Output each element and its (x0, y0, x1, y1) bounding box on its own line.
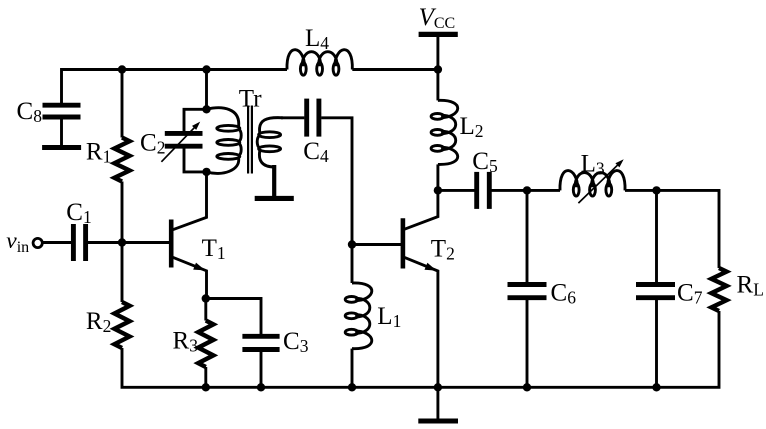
svg-text:R1: R1 (86, 139, 111, 167)
wire top rail to tank (205, 70, 208, 110)
svg-text:R3: R3 (173, 327, 199, 355)
label C2 (140, 130, 165, 158)
wire C3 bottom lead (260, 352, 263, 388)
capacitor C8 (43, 105, 81, 117)
wire L2 bottom lead (436, 164, 439, 190)
wire C5 to L3 (491, 189, 560, 192)
ground bar below Tr secondary (255, 196, 294, 201)
wire R2 bottom lead and rail corners (122, 311, 719, 387)
capacitor C1 (73, 224, 85, 261)
node T1 emitter junction (202, 294, 210, 302)
resistor R3 top lead (204, 299, 207, 321)
label R2 (86, 308, 111, 336)
node L1 bottom rail (348, 383, 356, 391)
label T2 (431, 236, 455, 264)
svg-text:C5: C5 (472, 148, 498, 176)
svg-text:VCC: VCC (419, 4, 456, 32)
svg-text:RL: RL (737, 272, 764, 300)
resistor R3 (198, 321, 213, 368)
wire v_in to C1 (42, 241, 71, 244)
inductor L3 (560, 171, 625, 197)
label R1 (86, 139, 111, 167)
wire Vcc stub (436, 35, 439, 70)
node C7 bottom rail (652, 383, 660, 391)
node L2 C5 junction (434, 186, 442, 194)
wire C7 top lead (655, 190, 658, 282)
resistor R2 (114, 302, 129, 348)
svg-text:Tr: Tr (239, 86, 262, 113)
resistor R1 (114, 138, 129, 182)
wire base node to T1 (122, 241, 169, 244)
node C3 bottom rail (257, 383, 265, 391)
node C6 junction (523, 186, 531, 194)
inductor L4 (287, 50, 352, 76)
ground bar (418, 419, 458, 424)
wire top rail right segment (L4 to Vcc node) (352, 68, 438, 71)
label C7 (677, 280, 703, 308)
svg-text:R2: R2 (86, 308, 111, 336)
svg-text:C1: C1 (66, 199, 91, 227)
svg-text:C2: C2 (140, 130, 165, 158)
wire ground stub (436, 387, 439, 420)
svg-text:L3: L3 (581, 150, 605, 178)
arrow C2 variable (161, 122, 200, 162)
transistor T1 base bar (169, 220, 174, 268)
wire R3 bottom lead (204, 367, 207, 387)
wire top rail left segment (C8 to L4) (62, 70, 288, 104)
capacitor C7 (636, 285, 675, 298)
wire R1 bottom to base node (121, 182, 124, 243)
wire C1 to base node (88, 241, 122, 244)
capacitor C3 (242, 336, 279, 349)
label L1 (377, 303, 401, 331)
svg-text:vin: vin (6, 228, 29, 256)
wire L1 bottom lead (351, 349, 354, 388)
inductor L1 (345, 283, 372, 349)
label L2 (460, 113, 484, 141)
svg-text:L2: L2 (460, 113, 484, 141)
label C8 (17, 98, 43, 126)
terminal v_in (33, 238, 42, 247)
node top rail / tank junction (202, 65, 210, 73)
label RL (737, 272, 764, 300)
wire Tr secondary to C4 (281, 116, 304, 119)
transformer Tr secondary winding (257, 118, 283, 167)
label C3 (283, 328, 309, 356)
transistor T1 collector (173, 172, 207, 230)
node tank top (202, 105, 210, 113)
label C1 (66, 199, 91, 227)
capacitor C5 (477, 172, 490, 209)
label Vcc (419, 4, 456, 32)
wire base node to R2 (121, 243, 124, 303)
label C6 (551, 280, 577, 308)
label L4 (305, 25, 329, 53)
wire C2 top connection (184, 109, 207, 131)
wire R1 top lead (121, 70, 124, 138)
capacitor C6 (508, 285, 547, 298)
transformer Tr core (248, 106, 252, 174)
label L3 (581, 150, 605, 178)
wire L3 to RL corner (625, 190, 719, 268)
transistor T2 emitter (404, 257, 438, 387)
wire C8 bottom lead (60, 119, 63, 145)
label R3 (173, 327, 199, 355)
svg-text:C7: C7 (677, 280, 703, 308)
node C7 junction (652, 186, 660, 194)
svg-text:C3: C3 (283, 328, 309, 356)
capacitor C4 (307, 99, 319, 137)
wire base node to T2 (352, 243, 401, 246)
svg-text:C4: C4 (303, 138, 329, 166)
transistor T2 base bar (401, 218, 406, 268)
node T2 base junction (348, 240, 356, 248)
wire C2 bottom connection (184, 149, 207, 172)
label v_in (6, 228, 29, 256)
inductor L2 (431, 100, 458, 164)
svg-text:L1: L1 (377, 303, 401, 331)
ground bar below C8 (42, 145, 81, 150)
label Tr (239, 86, 262, 113)
label C4 (303, 138, 329, 166)
node top rail / R1 junction (118, 65, 126, 73)
node base junction (118, 238, 126, 246)
node C6 bottom rail (523, 383, 531, 391)
wire L2 top lead (436, 70, 439, 101)
variable capacitor C2 (165, 133, 203, 146)
supply Vcc terminal bar (419, 32, 458, 37)
wire C6 top lead (526, 190, 529, 282)
transistor T2 collector (404, 190, 438, 229)
svg-text:T2: T2 (431, 236, 455, 264)
node R3 bottom rail (202, 383, 210, 391)
node Vcc junction (434, 65, 442, 73)
wire emitter node to C3 (206, 299, 261, 337)
transistor T1 emitter (173, 257, 207, 298)
label C5 (472, 148, 498, 176)
wire collector node to C5 (438, 189, 475, 192)
svg-text:L4: L4 (305, 25, 329, 53)
transformer Tr primary winding (207, 108, 242, 174)
svg-text:C6: C6 (551, 280, 577, 308)
resistor RL (711, 268, 726, 311)
svg-text:C8: C8 (17, 98, 43, 126)
wire L1 top lead (351, 245, 354, 284)
node tank bottom (202, 168, 210, 176)
wire C7 bottom lead (655, 300, 658, 388)
arrow L3 variable (578, 159, 623, 203)
wire C4 to T2 base (321, 118, 352, 245)
node T2 emitter bottom rail (434, 383, 442, 391)
svg-text:T1: T1 (202, 235, 226, 263)
label T1 (202, 235, 226, 263)
wire C6 bottom lead (526, 300, 529, 388)
wire Tr secondary ground stub (272, 165, 276, 196)
